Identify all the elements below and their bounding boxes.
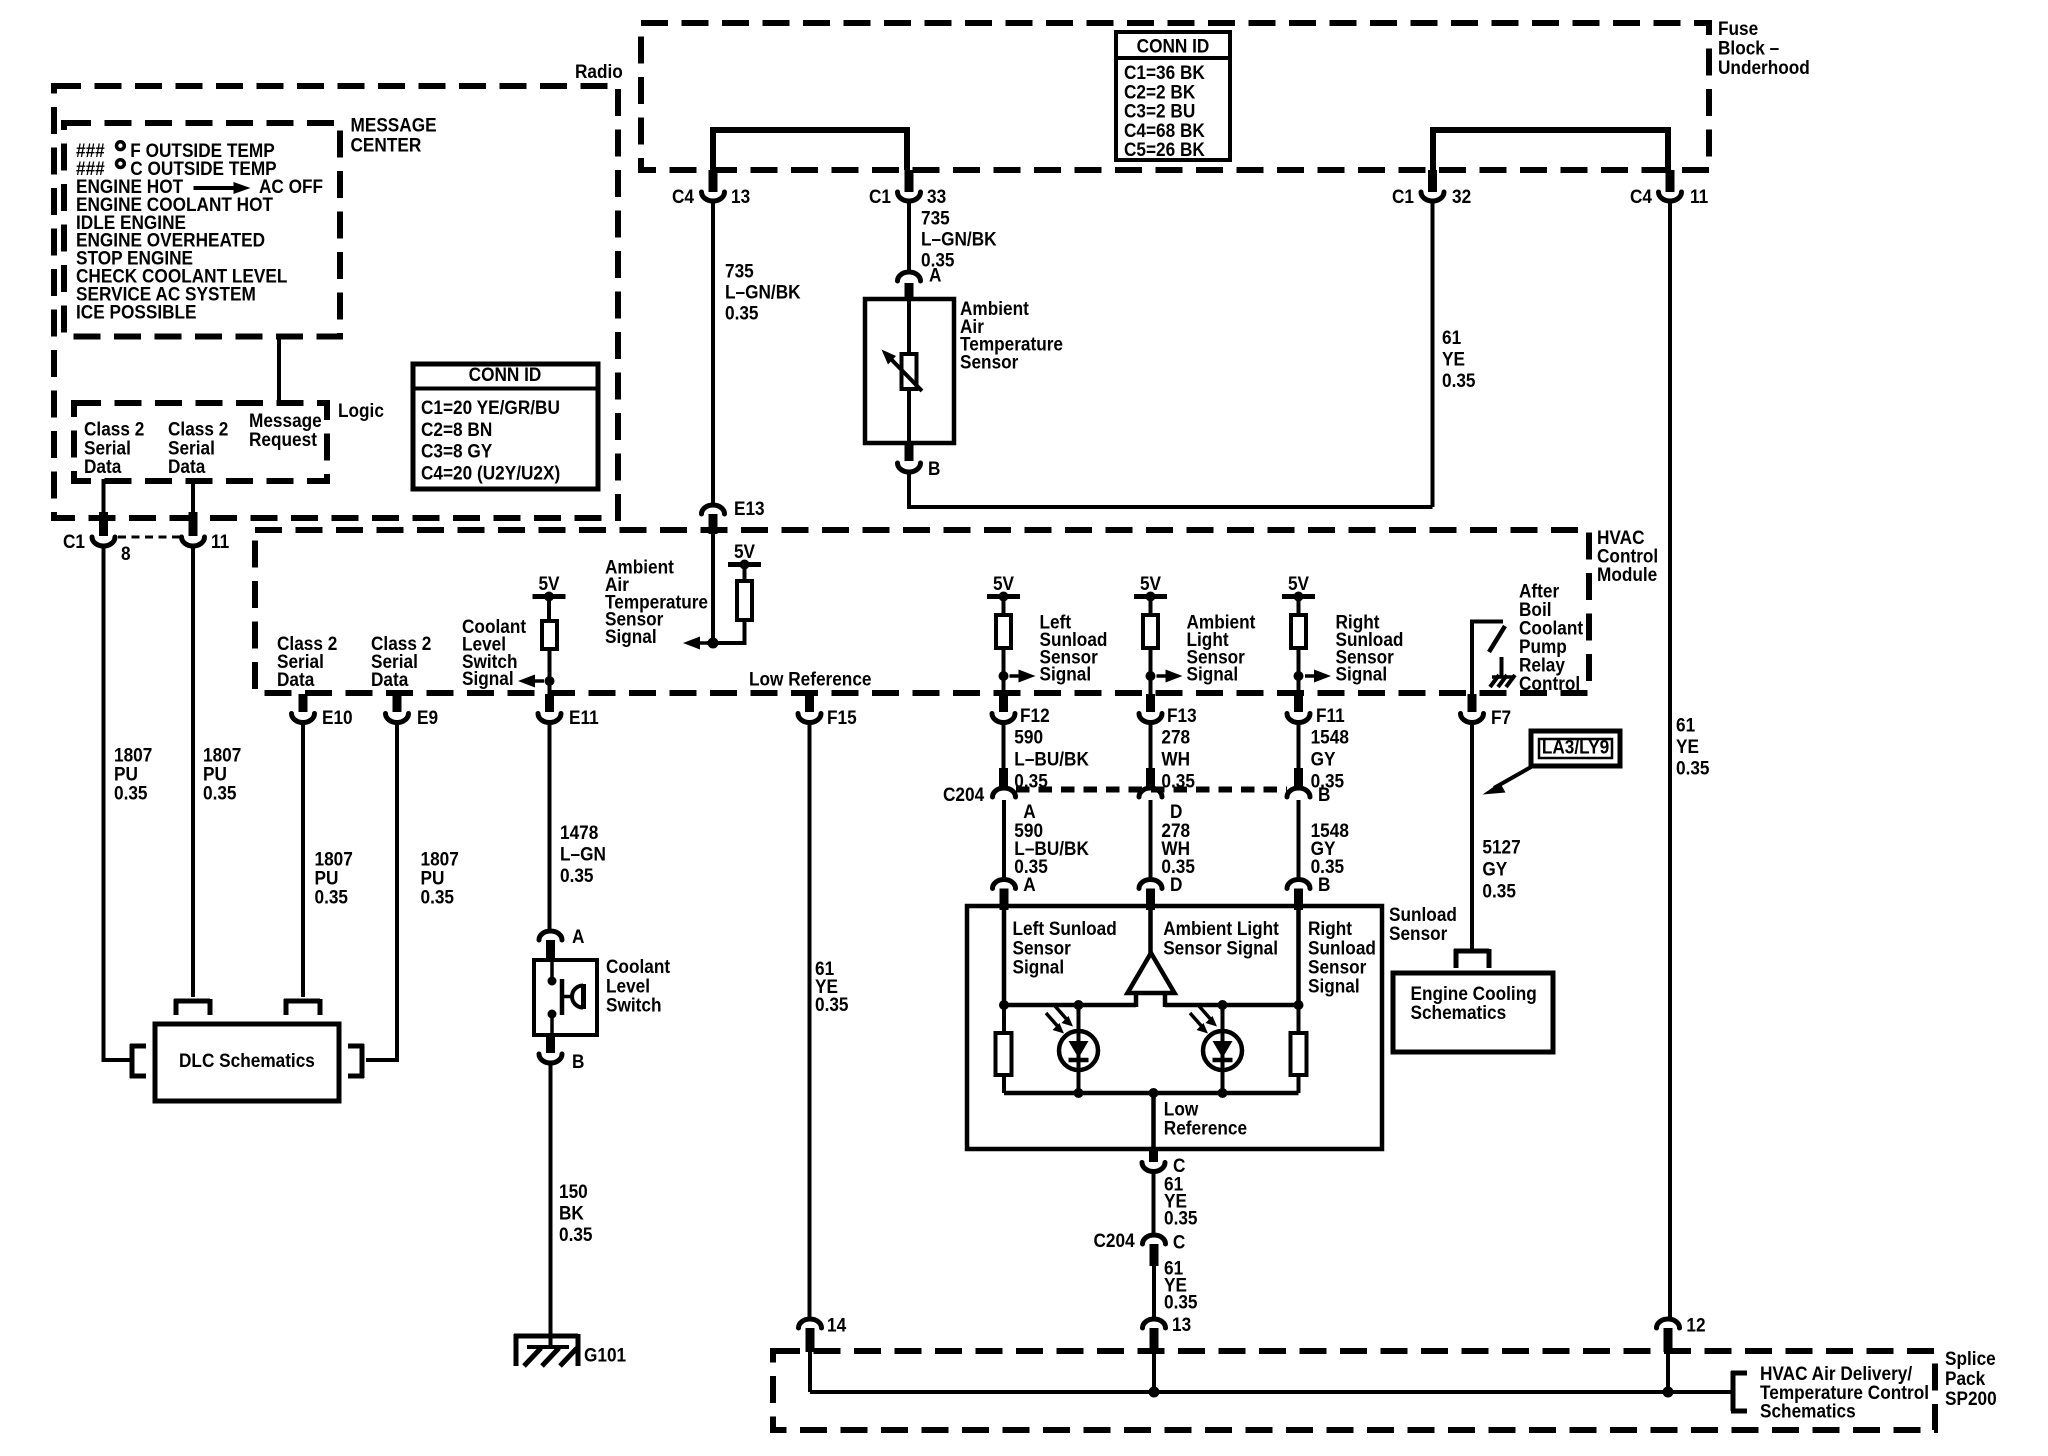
connector A coolant switch	[539, 931, 562, 940]
svg-text:1478: 1478	[560, 821, 598, 843]
svg-text:B: B	[1318, 873, 1330, 895]
svg-text:590: 590	[1014, 726, 1043, 748]
wire F13 to C204	[1149, 723, 1153, 770]
wire F13 resistor down	[1149, 648, 1153, 696]
wire resistor to E11	[548, 649, 552, 696]
svg-text:1548: 1548	[1311, 726, 1349, 748]
radio module dashed box	[54, 86, 618, 518]
svg-text:Data: Data	[168, 455, 206, 477]
svg-text:0.35: 0.35	[1164, 1207, 1198, 1229]
wire E13 into module	[711, 534, 715, 643]
CONN ID table (fuse block)	[1116, 32, 1230, 160]
svg-text:Signal: Signal	[1336, 662, 1388, 684]
svg-text:0.35: 0.35	[1482, 879, 1516, 901]
amplifier triangle	[1128, 953, 1175, 993]
amplifier pedestal	[1134, 993, 1139, 1007]
thermistor R ambient	[902, 354, 917, 389]
svg-text:33: 33	[927, 185, 946, 207]
svg-text:C1: C1	[869, 185, 891, 207]
connector E13	[702, 505, 725, 514]
svg-text:Signal: Signal	[1308, 974, 1360, 996]
arrow ambient air temperature sensor signal	[698, 641, 709, 645]
svg-text:0.35: 0.35	[203, 782, 237, 804]
wire F12 to C204	[1002, 723, 1006, 770]
connector 14 splice	[799, 1319, 822, 1328]
wire low reference to C	[1151, 1093, 1156, 1149]
fuse block underhood dashed box	[641, 23, 1709, 170]
svg-text:Logic: Logic	[338, 399, 384, 421]
after boil relay contact	[1470, 620, 1474, 695]
wire C204B to sunload	[1297, 800, 1301, 878]
connector C1 pin 32	[1428, 170, 1437, 192]
svg-text:AC OFF: AC OFF	[259, 175, 323, 197]
wire resistor to junction	[743, 620, 747, 645]
arrow coolant level switch signal	[533, 679, 544, 683]
connector F13	[1146, 694, 1155, 712]
HVAC control module dashed box	[255, 530, 1589, 693]
wire F11 to C204	[1297, 723, 1301, 770]
offpage bracket right DLC	[348, 1044, 364, 1049]
svg-text:F7: F7	[1491, 706, 1511, 728]
svg-text:D: D	[1170, 873, 1182, 895]
svg-text:Sensor: Sensor	[1389, 922, 1447, 944]
wire 735 L-GN/BK (C1-33 to sensor)	[907, 202, 911, 270]
offpage bracket engine cooling	[1454, 949, 1459, 968]
switch contact upper	[550, 962, 554, 978]
svg-text:C4=20 (U2Y/U2X): C4=20 (U2Y/U2X)	[421, 461, 560, 483]
sunload internal divider right	[1296, 906, 1301, 1005]
coolant signal junction	[545, 676, 555, 686]
pullup resistor F12	[996, 615, 1011, 648]
splice bus	[810, 1390, 1731, 1394]
wire sensor B to C1-32	[907, 472, 911, 507]
svg-text:11: 11	[211, 530, 229, 552]
wire 1478 L-GN (E11 to switch)	[548, 723, 552, 931]
svg-text:Reference: Reference	[1164, 1116, 1247, 1138]
photodiode left diode	[1069, 1041, 1089, 1058]
offpage bracket left DLC	[130, 1044, 146, 1049]
wire 61 YE (C4-11 down right side)	[1668, 202, 1672, 1318]
svg-text:C3=8 GY: C3=8 GY	[421, 439, 493, 461]
sunload bottom bus	[1004, 1091, 1299, 1096]
svg-text:C1=20 YE/GR/BU: C1=20 YE/GR/BU	[421, 396, 560, 418]
svg-text:C4: C4	[1630, 185, 1653, 207]
connector 12 splice	[1657, 1319, 1680, 1328]
pullup resistor coolant	[542, 621, 557, 649]
amplifier wire from D	[1148, 906, 1153, 955]
svg-text:32: 32	[1452, 185, 1471, 207]
svg-text:LA3/LY9: LA3/LY9	[1542, 736, 1609, 758]
connector C1 pin 8	[92, 537, 115, 546]
wire logic to connector C1-8	[102, 479, 106, 514]
connector E10	[299, 694, 308, 712]
arrow left sunload sensor signal	[1010, 674, 1021, 678]
sunload right resistor	[1297, 1005, 1301, 1033]
ambient signal junction node	[707, 641, 745, 645]
wire 1807 PU from pin 11	[191, 546, 195, 997]
connector C1 pin 33	[905, 170, 914, 192]
svg-text:12: 12	[1686, 1314, 1705, 1336]
LA3/LY9 tag box	[1531, 731, 1620, 766]
photodiode right diode	[1213, 1041, 1233, 1058]
svg-text:5V: 5V	[993, 572, 1015, 594]
splice wire 14 down	[808, 1330, 812, 1392]
pullup resistor ambient	[737, 581, 752, 620]
switch contact lower	[548, 1010, 557, 1019]
connector A ambient sensor	[898, 272, 921, 281]
svg-text:YE: YE	[1676, 735, 1699, 757]
svg-text:L–GN/BK: L–GN/BK	[725, 281, 801, 303]
svg-text:G101: G101	[584, 1344, 626, 1366]
svg-text:C4: C4	[672, 185, 695, 207]
svg-text:Radio: Radio	[575, 60, 623, 82]
wire F11 resistor down	[1297, 648, 1301, 696]
offpage bracket splice	[1731, 1371, 1747, 1376]
sunload internal left wire	[1002, 906, 1007, 1005]
splice wire 12 down	[1666, 1330, 1670, 1392]
svg-text:61: 61	[1676, 714, 1695, 736]
connector C204 C	[1143, 1235, 1166, 1244]
svg-text:Low Reference: Low Reference	[749, 668, 871, 690]
svg-text:0.35: 0.35	[815, 993, 849, 1015]
svg-text:0.35: 0.35	[559, 1223, 593, 1245]
svg-text:5V: 5V	[538, 572, 560, 594]
connector C204 A upper	[999, 768, 1008, 788]
svg-text:B: B	[572, 1050, 584, 1072]
svg-text:Sensor: Sensor	[960, 350, 1018, 372]
svg-text:5V: 5V	[734, 540, 756, 562]
splice pack SP200 dashed box	[773, 1351, 1935, 1430]
DLC Schematics box	[155, 1024, 339, 1101]
logic dashed box	[74, 403, 327, 481]
svg-text:CONN ID: CONN ID	[469, 363, 542, 385]
svg-text:14: 14	[827, 1314, 847, 1336]
photodiode left arrows	[1046, 1013, 1060, 1029]
svg-text:0.35: 0.35	[560, 864, 594, 886]
svg-text:0.35: 0.35	[114, 782, 148, 804]
wire C204C to splice 13	[1152, 1264, 1156, 1318]
wire logic to connector 11	[191, 479, 195, 514]
wire F12 resistor down	[1002, 648, 1006, 696]
connector 13 splice	[1143, 1319, 1166, 1328]
connector F7	[1468, 694, 1477, 712]
svg-text:Underhood: Underhood	[1718, 56, 1810, 78]
connector F12	[999, 694, 1008, 712]
svg-text:GY: GY	[1311, 747, 1336, 769]
thermistor arrow	[889, 357, 922, 391]
engine cooling schematics box	[1393, 973, 1553, 1052]
arrow right sunload sensor signal	[1305, 674, 1316, 678]
svg-text:C5=26 BK: C5=26 BK	[1124, 138, 1205, 160]
svg-text:F13: F13	[1167, 704, 1197, 726]
svg-text:F15: F15	[827, 706, 857, 728]
svg-text:E11: E11	[569, 706, 599, 728]
arrow ambient light sensor signal	[1157, 674, 1168, 678]
svg-text:Signal: Signal	[1040, 662, 1092, 684]
svg-text:C1: C1	[1392, 185, 1414, 207]
photodiode right arrows	[1190, 1013, 1204, 1029]
photodiode right wire	[1221, 1005, 1225, 1093]
svg-text:SP200: SP200	[1945, 1387, 1997, 1409]
svg-text:Sensor Signal: Sensor Signal	[1163, 936, 1278, 958]
svg-text:0.35: 0.35	[1442, 369, 1476, 391]
ground G101 symbol	[514, 1334, 519, 1366]
svg-text:Schematics: Schematics	[1411, 1001, 1507, 1023]
svg-text:E10: E10	[322, 706, 353, 728]
wire C204D to sunload	[1149, 800, 1153, 878]
sunload left resistor	[1002, 1005, 1006, 1033]
svg-text:Signal: Signal	[1187, 662, 1239, 684]
pullup resistor F13	[1143, 615, 1158, 648]
svg-text:E13: E13	[734, 497, 765, 519]
svg-text:B: B	[1318, 783, 1330, 805]
svg-text:Data: Data	[277, 668, 315, 690]
connector C204 B upper	[1294, 768, 1303, 788]
connector A sunload	[993, 880, 1016, 889]
svg-text:L–GN: L–GN	[560, 843, 606, 865]
svg-text:ICE POSSIBLE: ICE POSSIBLE	[76, 300, 197, 322]
photodiode right circle	[1203, 1031, 1242, 1070]
wire 1807 PU from pin 8	[102, 546, 106, 1062]
connector C204 D upper	[1146, 768, 1155, 788]
svg-text:8: 8	[121, 542, 131, 564]
sensor internal wire top	[907, 301, 911, 355]
svg-text:C204: C204	[943, 783, 985, 805]
svg-text:DLC Schematics: DLC Schematics	[179, 1049, 315, 1071]
connector B coolant switch	[546, 1035, 555, 1053]
svg-text:Switch: Switch	[606, 993, 661, 1015]
connector C4 pin 11	[1666, 170, 1675, 192]
svg-text:Data: Data	[371, 668, 409, 690]
connector C4 pin 13	[709, 170, 718, 192]
svg-text:0.35: 0.35	[1676, 757, 1710, 779]
svg-text:0.35: 0.35	[1164, 1291, 1198, 1313]
svg-text:Control: Control	[1519, 672, 1580, 694]
svg-text:11: 11	[1690, 185, 1708, 207]
photodiode left circle	[1059, 1031, 1098, 1070]
wire 1807 PU from E10	[301, 723, 305, 997]
connector B sunload	[1287, 880, 1310, 889]
sunload top bus	[1004, 1003, 1136, 1008]
ambient air temperature sensor box	[865, 299, 954, 443]
svg-text:F12: F12	[1020, 704, 1050, 726]
svg-text:E9: E9	[417, 706, 438, 728]
connector E9	[393, 694, 402, 712]
svg-text:WH: WH	[1161, 747, 1190, 769]
connector E11	[545, 694, 554, 712]
svg-text:B: B	[928, 457, 940, 479]
connector F11	[1294, 694, 1303, 712]
wire 735 L-GN/BK (C4-13 to E13)	[711, 202, 715, 504]
svg-text:Signal: Signal	[605, 625, 657, 647]
svg-text:5V: 5V	[1140, 572, 1162, 594]
arrow ENGINE HOT to AC OFF	[194, 186, 236, 190]
wire C204A to sunload	[1002, 800, 1006, 878]
svg-text:C: C	[1173, 1231, 1185, 1253]
svg-text:Data: Data	[84, 455, 122, 477]
offpage bracket E9	[284, 999, 289, 1015]
svg-text:5V: 5V	[1288, 572, 1310, 594]
svg-text:278: 278	[1161, 726, 1190, 748]
svg-text:C1: C1	[63, 530, 85, 552]
svg-text:150: 150	[559, 1180, 588, 1202]
svg-text:Schematics: Schematics	[1760, 1399, 1856, 1421]
C204 dashed link line	[1016, 787, 1287, 793]
connector B ambient sensor	[905, 443, 914, 461]
svg-text:L–GN/BK: L–GN/BK	[921, 228, 997, 250]
svg-text:Request: Request	[249, 428, 317, 450]
svg-text:Module: Module	[1597, 563, 1657, 585]
wire 150 BK to ground	[549, 1063, 553, 1348]
wire message center to logic	[277, 339, 281, 405]
splice wire 13 down	[1152, 1330, 1156, 1392]
svg-text:735: 735	[725, 260, 754, 282]
arrow LA3/LY9 to wire	[1494, 767, 1531, 788]
fuse block internal wire left	[713, 127, 907, 133]
relay coil ground symbol	[1500, 657, 1504, 676]
pullup resistor F11	[1291, 615, 1306, 648]
switch blade and float	[560, 979, 565, 1015]
svg-text:C204: C204	[1094, 1229, 1136, 1251]
junction F13 signal	[1146, 671, 1156, 681]
svg-text:C2=8 BN: C2=8 BN	[421, 418, 492, 440]
svg-text:YE: YE	[1442, 348, 1465, 370]
junction F11 signal	[1294, 671, 1304, 681]
sunload sensor box	[967, 906, 1382, 1149]
junction F12 signal	[999, 671, 1009, 681]
wire 61 YE from F15	[808, 723, 812, 1318]
svg-text:5127: 5127	[1482, 836, 1520, 858]
svg-text:13: 13	[1172, 1313, 1191, 1335]
connector D sunload	[1139, 880, 1162, 889]
svg-text:735: 735	[921, 207, 950, 229]
coolant level switch box	[534, 960, 597, 1035]
wire C to C204	[1152, 1172, 1156, 1235]
svg-text:0.35: 0.35	[421, 886, 455, 908]
svg-text:Signal: Signal	[1013, 955, 1065, 977]
svg-text:CENTER: CENTER	[351, 133, 422, 155]
CONN ID table (radio)	[413, 364, 598, 489]
svg-text:F11: F11	[1316, 704, 1345, 726]
svg-text:0.35: 0.35	[315, 886, 349, 908]
connector F15	[805, 694, 814, 712]
wire 1807 PU from E9	[395, 723, 399, 1062]
svg-text:BK: BK	[559, 1202, 584, 1224]
connector link dashed line C1	[118, 536, 180, 539]
sensor internal wire bottom	[907, 389, 911, 443]
svg-text:GY: GY	[1482, 857, 1507, 879]
svg-text:0.35: 0.35	[725, 302, 759, 324]
message center dashed box	[64, 123, 340, 337]
svg-text:A: A	[1023, 873, 1035, 895]
photodiode left wire	[1077, 1005, 1081, 1093]
svg-text:13: 13	[731, 185, 750, 207]
svg-text:61: 61	[1442, 326, 1461, 348]
connector C1 pin 11	[182, 537, 205, 546]
svg-text:A: A	[572, 925, 584, 947]
svg-text:A: A	[929, 264, 941, 286]
connector C sunload	[1149, 1149, 1158, 1162]
offpage bracket E10	[174, 999, 179, 1015]
fuse block internal wire right	[1433, 127, 1668, 133]
svg-text:L–BU/BK: L–BU/BK	[1014, 747, 1089, 769]
svg-text:Signal: Signal	[462, 667, 514, 689]
wire 5127 GY from F7	[1470, 723, 1474, 951]
svg-text:CONN ID: CONN ID	[1137, 35, 1210, 57]
